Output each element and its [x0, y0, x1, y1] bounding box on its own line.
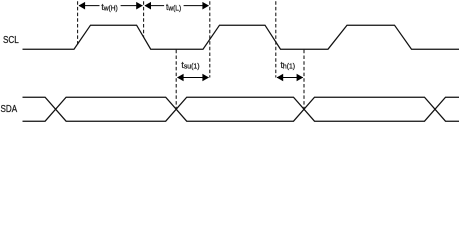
svg-text:SCL: SCL [3, 35, 19, 46]
svg-text:SDA: SDA [1, 104, 18, 115]
